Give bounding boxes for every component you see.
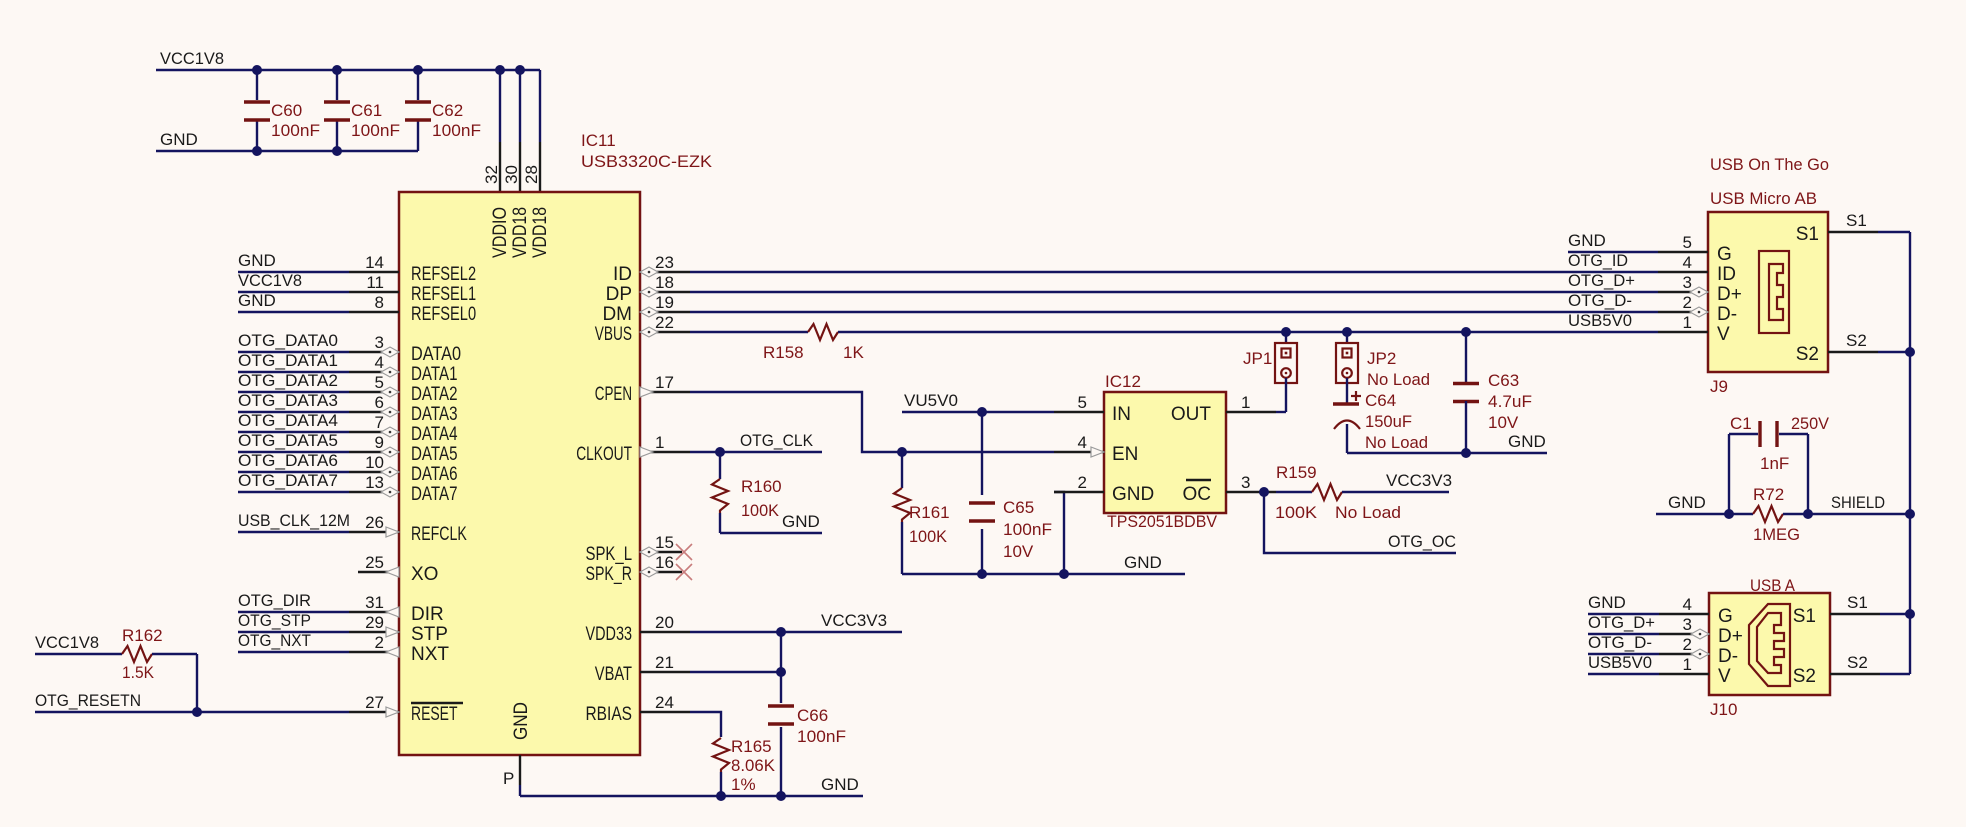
wire net USB5V0 (R158 to J9) bbox=[838, 331, 1658, 333]
svg-text:8: 8 bbox=[375, 293, 384, 312]
svg-text:100nF: 100nF bbox=[271, 121, 320, 140]
svg-text:3: 3 bbox=[1683, 615, 1692, 634]
svg-text:DP: DP bbox=[606, 284, 632, 305]
svg-text:R72: R72 bbox=[1753, 485, 1784, 504]
svg-text:DATA0: DATA0 bbox=[411, 344, 461, 365]
capacitor C64 150uF polarized No Load bbox=[1333, 378, 1428, 453]
IC11 pin 8 REFSEL0 bbox=[349, 293, 476, 325]
J9 pin 3 D+ (OTG_D+) bbox=[1568, 271, 1742, 305]
IC11 pin 2 NXT bbox=[349, 633, 449, 665]
svg-text:100K: 100K bbox=[909, 527, 948, 546]
svg-text:OTG_D-: OTG_D- bbox=[1568, 291, 1632, 310]
svg-text:27: 27 bbox=[365, 693, 384, 712]
svg-text:SPK_L: SPK_L bbox=[586, 544, 633, 565]
IC11 pin 30 VDD18 (top) bbox=[502, 165, 531, 258]
node OTG_DATA7 wire to IC11 bbox=[238, 471, 349, 492]
svg-text:3: 3 bbox=[1683, 273, 1692, 292]
resistor R158 1K in VBUS line bbox=[690, 324, 864, 362]
svg-text:16: 16 bbox=[655, 553, 674, 572]
capacitor C61 100nF bbox=[324, 70, 400, 151]
node OTG_DATA3 wire to IC11 bbox=[238, 391, 349, 412]
IC11 pin 17 CPEN bbox=[595, 373, 690, 405]
svg-text:OTG_DIR: OTG_DIR bbox=[238, 591, 311, 610]
resistor R165 8.06K 1% bbox=[713, 737, 776, 796]
svg-text:2: 2 bbox=[1683, 635, 1692, 654]
IC11 pin 25 XO bbox=[358, 553, 438, 585]
IC11 pin 16 SPK_R bbox=[586, 553, 693, 585]
resistor R162 1.5K pull-up bbox=[35, 626, 197, 682]
IC11 pin 27 RESET bbox=[349, 693, 463, 725]
svg-text:R162: R162 bbox=[122, 626, 163, 645]
junction bus/S2 bbox=[1905, 347, 1915, 357]
svg-text:VDD18: VDD18 bbox=[530, 207, 551, 258]
node VU5V0 wire to IC12 IN bbox=[902, 391, 1054, 412]
svg-text:XO: XO bbox=[411, 564, 438, 585]
J10 pin 1 V (USB5V0) bbox=[1588, 653, 1731, 687]
svg-text:OTG_RESETN: OTG_RESETN bbox=[35, 691, 141, 710]
svg-text:REFCLK: REFCLK bbox=[411, 524, 467, 545]
svg-text:1MEG: 1MEG bbox=[1753, 525, 1800, 544]
svg-text:15: 15 bbox=[655, 533, 674, 552]
svg-text:OTG_DATA2: OTG_DATA2 bbox=[238, 371, 338, 390]
svg-text:1: 1 bbox=[655, 433, 664, 452]
junction USB5V0/C63 bbox=[1461, 327, 1471, 337]
svg-text:10V: 10V bbox=[1488, 413, 1519, 432]
svg-text:VCC3V3: VCC3V3 bbox=[821, 611, 887, 630]
svg-text:GND: GND bbox=[1568, 231, 1606, 250]
junction USB5V0/JP1 bbox=[1281, 327, 1291, 337]
wire JP1 to IC12 OUT bbox=[1285, 378, 1287, 412]
svg-text:VCC1V8: VCC1V8 bbox=[35, 633, 99, 652]
svg-text:OTG_DATA1: OTG_DATA1 bbox=[238, 351, 338, 370]
svg-text:USB5V0: USB5V0 bbox=[1568, 311, 1632, 330]
svg-text:GND: GND bbox=[1124, 553, 1162, 572]
svg-text:100K: 100K bbox=[1275, 503, 1318, 522]
node OTG_OC wire bbox=[1264, 492, 1456, 553]
J10 pin 2 D- (OTG_D-) bbox=[1588, 633, 1738, 667]
svg-text:No Load: No Load bbox=[1367, 370, 1430, 389]
junction OTG_CLK/R160 bbox=[715, 447, 725, 457]
transistor Q1 IC12 TPS2051BDBV body bbox=[1104, 372, 1226, 531]
svg-text:DATA6: DATA6 bbox=[411, 464, 458, 485]
node GND (R160) bbox=[720, 512, 822, 533]
IC11 pin 32 VDDIO (top) bbox=[482, 165, 511, 258]
jumper JP1 bbox=[1243, 332, 1297, 383]
svg-text:19: 19 bbox=[655, 293, 674, 312]
svg-text:USB On The Go: USB On The Go bbox=[1710, 155, 1829, 174]
svg-text:GND: GND bbox=[160, 130, 198, 149]
connector J10 USB A body bbox=[1709, 576, 1830, 719]
node GND rail below IC12 bbox=[902, 553, 1185, 574]
junction VDD33/C66 bbox=[776, 627, 786, 637]
svg-text:GND: GND bbox=[1112, 484, 1154, 505]
capacitor C62 100nF bbox=[405, 70, 481, 151]
svg-text:1nF: 1nF bbox=[1760, 454, 1789, 473]
svg-text:S1: S1 bbox=[1847, 593, 1868, 612]
svg-text:OTG_DATA5: OTG_DATA5 bbox=[238, 431, 338, 450]
svg-text:30: 30 bbox=[502, 165, 521, 184]
svg-text:31: 31 bbox=[365, 593, 384, 612]
svg-text:OTG_DATA3: OTG_DATA3 bbox=[238, 391, 338, 410]
svg-text:C66: C66 bbox=[797, 706, 828, 725]
svg-text:R165: R165 bbox=[731, 737, 772, 756]
J9 pin 2 D- (OTG_D-) bbox=[1568, 291, 1737, 325]
capacitor C66 100nF bbox=[768, 632, 846, 796]
svg-text:3: 3 bbox=[1241, 473, 1250, 492]
resistor R159 100K No Load to VCC3V3 bbox=[1275, 463, 1452, 522]
wire net OTG_ID (IC11 ID to J9) bbox=[690, 271, 1658, 273]
svg-text:CLKOUT: CLKOUT bbox=[576, 444, 632, 465]
node VCC1V8 power rail (top) bbox=[156, 49, 540, 192]
junction OC/R159/OTG_OC bbox=[1259, 487, 1269, 497]
junction OTG_RESETN / R162 bbox=[192, 707, 202, 717]
svg-text:S1: S1 bbox=[1793, 606, 1816, 627]
node OTG_DATA2 wire to IC11 bbox=[238, 371, 349, 392]
svg-text:26: 26 bbox=[365, 513, 384, 532]
svg-text:No Load: No Load bbox=[1365, 433, 1428, 452]
svg-text:C64: C64 bbox=[1365, 391, 1396, 410]
svg-text:18: 18 bbox=[655, 273, 674, 292]
svg-text:USB5V0: USB5V0 bbox=[1588, 653, 1652, 672]
IC11 pin 13 DATA7 bbox=[349, 473, 458, 505]
IC11 pin 4 DATA1 bbox=[349, 353, 458, 385]
svg-text:V: V bbox=[1717, 324, 1730, 345]
svg-text:11: 11 bbox=[366, 273, 384, 292]
svg-text:4: 4 bbox=[1078, 433, 1087, 452]
node OTG_DIR wire to IC11 bbox=[238, 591, 349, 612]
J9 pin 5 G (GND) bbox=[1568, 231, 1732, 265]
svg-text:NXT: NXT bbox=[411, 644, 449, 665]
svg-text:OTG_CLK: OTG_CLK bbox=[740, 431, 814, 450]
capacitor C60 100nF bbox=[244, 70, 320, 151]
resistor R161 100K pull-down bbox=[894, 452, 950, 574]
svg-text:REFSEL2: REFSEL2 bbox=[411, 264, 476, 285]
IC11 pin 24 RBIAS bbox=[586, 693, 691, 725]
J10 pin S2 shield bbox=[1793, 653, 1910, 687]
svg-text:4: 4 bbox=[1683, 253, 1692, 272]
node GND wire (JP2/C64/C63) bbox=[1347, 432, 1547, 453]
IC11 pin 18 DP bbox=[606, 273, 690, 305]
svg-text:SPK_R: SPK_R bbox=[586, 564, 633, 585]
svg-text:C1: C1 bbox=[1730, 414, 1752, 433]
node OTG_DATA5 wire to IC11 bbox=[238, 431, 349, 452]
node OTG_STP wire to IC11 bbox=[238, 611, 349, 632]
svg-text:20: 20 bbox=[655, 613, 674, 632]
svg-text:D+: D+ bbox=[1717, 284, 1742, 305]
wire shield bus vertical bbox=[1909, 232, 1911, 674]
node OTG_RESETN wire bbox=[35, 691, 349, 712]
svg-text:G: G bbox=[1717, 244, 1732, 265]
svg-text:GND: GND bbox=[1588, 593, 1626, 612]
svg-text:10V: 10V bbox=[1003, 542, 1034, 561]
svg-text:OTG_D+: OTG_D+ bbox=[1588, 613, 1655, 632]
junction R72/C1 left bbox=[1724, 509, 1734, 519]
svg-text:23: 23 bbox=[655, 253, 674, 272]
svg-text:DATA3: DATA3 bbox=[411, 404, 458, 425]
svg-text:J9: J9 bbox=[1710, 377, 1728, 396]
svg-text:32: 32 bbox=[482, 165, 501, 184]
svg-text:DATA5: DATA5 bbox=[411, 444, 458, 465]
junction dots on GND rail bbox=[252, 146, 342, 156]
svg-text:1: 1 bbox=[1241, 393, 1250, 412]
IC11 pin P GND (bottom) bbox=[503, 702, 532, 796]
svg-text:1K: 1K bbox=[843, 343, 864, 362]
svg-text:7: 7 bbox=[375, 413, 384, 432]
svg-text:100nF: 100nF bbox=[351, 121, 400, 140]
svg-text:C65: C65 bbox=[1003, 498, 1034, 517]
IC11 pin 1 CLKOUT bbox=[576, 433, 690, 465]
IC11 pin 31 DIR bbox=[349, 593, 444, 625]
svg-text:GND: GND bbox=[238, 291, 276, 310]
resistor R72 1MEG bbox=[1656, 485, 1910, 544]
svg-text:4.7uF: 4.7uF bbox=[1488, 392, 1532, 411]
IC11 pin 7 DATA4 bbox=[349, 413, 458, 445]
IC12 pin 1 OUT bbox=[1171, 393, 1286, 425]
junction GND/C63 bbox=[1461, 448, 1471, 458]
svg-text:JP1: JP1 bbox=[1243, 349, 1272, 368]
IC11 pin 28 VDD18 (top) bbox=[522, 165, 551, 258]
svg-text:2: 2 bbox=[1078, 473, 1087, 492]
wire net OTG_D- (IC11 DM to J9) bbox=[690, 311, 1658, 313]
svg-text:RESET: RESET bbox=[411, 704, 458, 725]
J9 USB receptacle symbol bbox=[1759, 251, 1789, 333]
svg-text:VCC1V8: VCC1V8 bbox=[238, 271, 302, 290]
svg-text:OTG_D-: OTG_D- bbox=[1588, 633, 1652, 652]
svg-text:100K: 100K bbox=[741, 501, 780, 520]
node GND rail (top) bbox=[156, 130, 418, 151]
wire VDD18 pin 30 drop bbox=[519, 70, 521, 192]
svg-text:OTG_ID: OTG_ID bbox=[1568, 251, 1628, 270]
svg-text:5: 5 bbox=[1683, 233, 1692, 252]
resistor R160 100K to GND bbox=[712, 452, 782, 533]
svg-text:TPS2051BDBV: TPS2051BDBV bbox=[1107, 512, 1218, 531]
svg-text:OTG_STP: OTG_STP bbox=[238, 611, 311, 630]
svg-text:CPEN: CPEN bbox=[595, 384, 632, 405]
junction GND/R165 bbox=[716, 791, 726, 801]
svg-text:25: 25 bbox=[365, 553, 384, 572]
svg-text:28: 28 bbox=[522, 165, 541, 184]
svg-text:SHIELD: SHIELD bbox=[1831, 493, 1885, 512]
svg-text:9: 9 bbox=[375, 433, 384, 452]
wire net OTG_D+ (IC11 DP to J9) bbox=[690, 291, 1658, 293]
svg-text:VBUS: VBUS bbox=[595, 324, 632, 345]
junction USB5V0/JP2 bbox=[1342, 327, 1352, 337]
svg-text:C60: C60 bbox=[271, 101, 302, 120]
svg-text:OTG_OC: OTG_OC bbox=[1388, 532, 1456, 551]
wire R162 to OTG_RESETN bbox=[196, 654, 198, 712]
svg-text:IC12: IC12 bbox=[1105, 372, 1141, 391]
svg-text:VDD33: VDD33 bbox=[586, 624, 633, 645]
IC11 pin 29 STP bbox=[349, 613, 448, 645]
svg-text:C62: C62 bbox=[432, 101, 463, 120]
svg-text:5: 5 bbox=[375, 373, 384, 392]
svg-text:100nF: 100nF bbox=[1003, 520, 1052, 539]
IC11 pin 20 VDD33 bbox=[586, 613, 691, 645]
svg-text:14: 14 bbox=[365, 253, 384, 272]
svg-text:10: 10 bbox=[365, 453, 384, 472]
capacitor C65 100nF 10V bbox=[969, 412, 1052, 574]
svg-text:100nF: 100nF bbox=[797, 727, 846, 746]
svg-text:OTG_NXT: OTG_NXT bbox=[238, 631, 311, 650]
svg-text:RBIAS: RBIAS bbox=[586, 704, 633, 725]
IC11 pin 15 SPK_L bbox=[586, 533, 693, 565]
svg-text:2: 2 bbox=[375, 633, 384, 652]
svg-text:GND: GND bbox=[782, 512, 820, 531]
IC11 pin 19 DM bbox=[602, 293, 690, 325]
svg-text:DATA1: DATA1 bbox=[411, 364, 458, 385]
junction EN/R161 bbox=[897, 447, 907, 457]
svg-text:100nF: 100nF bbox=[432, 121, 481, 140]
svg-text:STP: STP bbox=[411, 624, 448, 645]
J9 pin S1 shield bbox=[1796, 211, 1910, 245]
svg-text:JP2: JP2 bbox=[1367, 349, 1396, 368]
svg-text:R158: R158 bbox=[763, 343, 804, 362]
svg-text:V: V bbox=[1718, 666, 1731, 687]
svg-text:VDDIO: VDDIO bbox=[490, 207, 511, 258]
J10 pin 4 G (GND) bbox=[1588, 593, 1733, 627]
IC11 pin 9 DATA5 bbox=[349, 433, 458, 465]
svg-text:150uF: 150uF bbox=[1365, 412, 1412, 431]
capacitor C1 1nF 250V bbox=[1729, 414, 1830, 514]
svg-text:C63: C63 bbox=[1488, 371, 1519, 390]
svg-text:IN: IN bbox=[1112, 404, 1131, 425]
svg-text:S1: S1 bbox=[1846, 211, 1867, 230]
svg-text:250V: 250V bbox=[1791, 414, 1830, 433]
node VCC1V8 wire to IC11 bbox=[238, 271, 349, 292]
svg-text:OTG_DATA6: OTG_DATA6 bbox=[238, 451, 338, 470]
svg-text:DIR: DIR bbox=[411, 604, 444, 625]
jumper JP2 No Load bbox=[1336, 332, 1430, 389]
svg-text:6: 6 bbox=[375, 393, 384, 412]
svg-text:VDD18: VDD18 bbox=[510, 207, 531, 258]
svg-text:ID: ID bbox=[1717, 264, 1736, 285]
IC11 pin 22 VBUS bbox=[595, 313, 690, 345]
svg-text:S2: S2 bbox=[1796, 344, 1819, 365]
junction GND/C66 bbox=[776, 791, 786, 801]
node GND wire to IC11 bbox=[238, 251, 349, 272]
J10 pin S1 shield bbox=[1793, 593, 1910, 627]
node USB_CLK_12M wire to IC11 bbox=[238, 511, 350, 532]
svg-text:GND: GND bbox=[1668, 493, 1706, 512]
svg-text:S2: S2 bbox=[1846, 331, 1867, 350]
svg-text:USB A: USB A bbox=[1750, 576, 1796, 595]
svg-text:OTG_DATA0: OTG_DATA0 bbox=[238, 331, 338, 350]
svg-text:1%: 1% bbox=[731, 775, 756, 794]
IC11 pin 26 REFCLK bbox=[349, 513, 467, 545]
svg-text:S2: S2 bbox=[1793, 666, 1816, 687]
svg-text:IC11: IC11 bbox=[581, 131, 616, 150]
junction VU5V0/C65 bbox=[977, 407, 987, 417]
connector J9 USB Micro AB body bbox=[1708, 155, 1829, 396]
wire VBAT to C66 bbox=[690, 671, 781, 673]
wire VDDIO pin 32 drop bbox=[499, 70, 501, 192]
svg-text:OTG_DATA7: OTG_DATA7 bbox=[238, 471, 338, 490]
svg-text:DM: DM bbox=[602, 304, 632, 325]
IC12 pin 5 IN bbox=[1054, 393, 1131, 425]
svg-text:VBAT: VBAT bbox=[595, 664, 633, 685]
svg-text:VU5V0: VU5V0 bbox=[904, 391, 958, 410]
wire RBIAS to R165 bbox=[690, 712, 721, 737]
svg-text:USB Micro AB: USB Micro AB bbox=[1710, 189, 1817, 208]
svg-text:GND: GND bbox=[1508, 432, 1546, 451]
svg-text:8.06K: 8.06K bbox=[731, 756, 776, 775]
op-amp U1 IC11 USB3320C-EZK body bbox=[399, 131, 713, 755]
IC11 pin 21 VBAT bbox=[595, 653, 690, 685]
J9 pin 1 V (USB5V0) bbox=[1568, 311, 1730, 345]
svg-text:VCC3V3: VCC3V3 bbox=[1386, 471, 1452, 490]
svg-text:GND: GND bbox=[238, 251, 276, 270]
node VCC3V3 wire from VDD33 bbox=[690, 611, 902, 632]
IC11 pin 6 DATA3 bbox=[349, 393, 458, 425]
svg-text:S1: S1 bbox=[1796, 224, 1819, 245]
capacitor C63 4.7uF 10V bbox=[1453, 332, 1532, 453]
svg-text:GND: GND bbox=[821, 775, 859, 794]
svg-text:2: 2 bbox=[1683, 293, 1692, 312]
node OTG_DATA0 wire to IC11 bbox=[238, 331, 349, 352]
svg-text:DATA7: DATA7 bbox=[411, 484, 458, 505]
J10 USB A plug symbol bbox=[1749, 604, 1790, 686]
wire CPEN to EN bbox=[690, 392, 1054, 452]
svg-text:DATA2: DATA2 bbox=[411, 384, 458, 405]
svg-text:1.5K: 1.5K bbox=[122, 663, 155, 682]
IC11 pin 11 REFSEL1 bbox=[349, 273, 476, 305]
node OTG_DATA6 wire to IC11 bbox=[238, 451, 349, 472]
svg-text:1: 1 bbox=[1683, 313, 1692, 332]
node GND rail (bottom) bbox=[520, 775, 863, 796]
svg-text:G: G bbox=[1718, 606, 1733, 627]
svg-text:ID: ID bbox=[613, 264, 632, 285]
IC12 pin 4 EN bbox=[1054, 433, 1138, 465]
svg-text:REFSEL1: REFSEL1 bbox=[411, 284, 476, 305]
svg-text:1: 1 bbox=[1683, 655, 1692, 674]
IC12 pin 3 OC bbox=[1183, 473, 1277, 505]
svg-text:OTG_D+: OTG_D+ bbox=[1568, 271, 1635, 290]
svg-text:GND: GND bbox=[511, 702, 532, 740]
svg-text:EN: EN bbox=[1112, 444, 1138, 465]
junction dots on VCC1V8 rail bbox=[252, 65, 525, 75]
IC11 pin 14 REFSEL2 bbox=[349, 253, 476, 285]
svg-text:OC: OC bbox=[1183, 484, 1212, 505]
IC11 pin 23 ID bbox=[613, 253, 690, 285]
svg-text:USB3320C-EZK: USB3320C-EZK bbox=[581, 152, 713, 171]
J9 pin S2 shield bbox=[1796, 331, 1910, 365]
svg-text:13: 13 bbox=[365, 473, 384, 492]
svg-text:5: 5 bbox=[1078, 393, 1087, 412]
svg-text:17: 17 bbox=[655, 373, 674, 392]
J10 pin 3 D+ (OTG_D+) bbox=[1588, 613, 1743, 647]
svg-text:R159: R159 bbox=[1276, 463, 1317, 482]
node OTG_NXT wire to IC11 bbox=[238, 631, 349, 652]
node GND wire to IC11 bbox=[238, 291, 349, 312]
svg-text:No Load: No Load bbox=[1335, 503, 1401, 522]
svg-text:D+: D+ bbox=[1718, 626, 1743, 647]
svg-text:R161: R161 bbox=[909, 503, 950, 522]
svg-text:P: P bbox=[503, 769, 514, 788]
svg-text:4: 4 bbox=[375, 353, 384, 372]
svg-text:J10: J10 bbox=[1710, 700, 1737, 719]
J9 pin 4 ID (OTG_ID) bbox=[1568, 251, 1736, 285]
svg-text:S2: S2 bbox=[1847, 653, 1868, 672]
junction GND/IC12-GND bbox=[1059, 569, 1069, 579]
svg-text:24: 24 bbox=[655, 693, 674, 712]
svg-text:29: 29 bbox=[365, 613, 384, 632]
svg-text:3: 3 bbox=[375, 333, 384, 352]
svg-text:R160: R160 bbox=[741, 477, 782, 496]
svg-text:D-: D- bbox=[1717, 304, 1737, 325]
junction bus/J10 S1 bbox=[1905, 609, 1915, 619]
svg-text:C61: C61 bbox=[351, 101, 382, 120]
svg-text:REFSEL0: REFSEL0 bbox=[411, 304, 476, 325]
